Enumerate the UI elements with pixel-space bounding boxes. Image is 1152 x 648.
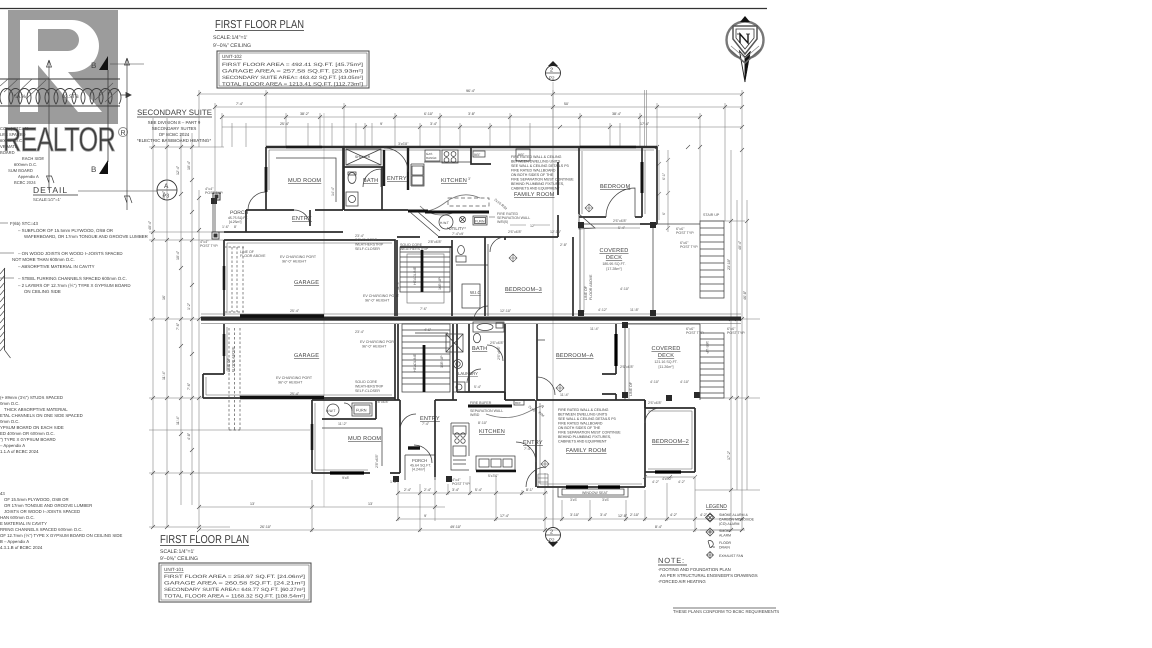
svg-text:12'-8": 12'-8" xyxy=(618,514,628,518)
svg-text:23'-4": 23'-4" xyxy=(355,330,365,334)
bedroomA smoke diamond xyxy=(556,384,564,392)
svg-text:YPSUM BOARD ON EACH SIDE: YPSUM BOARD ON EACH SIDE xyxy=(0,425,64,430)
svg-text:") TYPE X GYPSUM BOARD: ") TYPE X GYPSUM BOARD xyxy=(0,437,56,442)
window bottom mudroom xyxy=(330,471,364,474)
svg-text:GARAGE: GARAGE xyxy=(294,353,319,359)
note block F(6b) xyxy=(10,221,148,294)
svg-text:SCALE:1/2"=1': SCALE:1/2"=1' xyxy=(33,197,61,202)
svg-text:FURN: FURN xyxy=(356,409,367,413)
entry/porch walls xyxy=(224,210,343,232)
svg-text:THESE PLANS CONFORM TO BCB: THESE PLANS CONFORM TO BCBC REQUIREMENTS xyxy=(673,609,779,614)
svg-text:0mm O.C.: 0mm O.C. xyxy=(0,419,20,424)
svg-text:38'-2": 38'-2" xyxy=(300,112,310,116)
garage lower xyxy=(203,324,395,400)
section bubble top xyxy=(546,66,561,81)
unit 102 area box xyxy=(217,51,369,88)
svg-text:KITCHEN: KITCHEN xyxy=(479,429,505,435)
svg-text:\\A.%: \\A.% xyxy=(14,94,27,100)
svg-text:9'–0⅝" CEILING: 9'–0⅝" CEILING xyxy=(213,43,251,49)
utility fixtures xyxy=(439,215,453,229)
svg-text:12'-10": 12'-10" xyxy=(500,309,512,313)
left dim ticks xyxy=(151,145,201,529)
left dimension verticals xyxy=(149,118,312,527)
mud room inner line xyxy=(276,158,336,202)
unit 101 area box xyxy=(159,563,311,602)
svg-text:TOTAL FLOOR AREA = 116: TOTAL FLOOR AREA = 1168.32 SQ.FT. [108.5… xyxy=(164,594,305,599)
tub xyxy=(473,322,504,332)
svg-text:BEHIND PLUMBING FIXTURES,: BEHIND PLUMBING FIXTURES, xyxy=(558,435,611,439)
svg-text:F(6b) STC=43: F(6b) STC=43 xyxy=(10,221,38,226)
svg-text:P2: P2 xyxy=(549,76,555,81)
svg-text:DRAIN: DRAIN xyxy=(719,546,730,550)
svg-text:FAMILY ROOM: FAMILY ROOM xyxy=(514,192,555,198)
svg-text:BEDROOM–3: BEDROOM–3 xyxy=(505,287,542,293)
svg-text:ENTRY: ENTRY xyxy=(523,440,543,446)
svg-text:FIRE SEPARATION MUST CONTINU: FIRE SEPARATION MUST CONTINUE xyxy=(511,178,574,182)
porch xyxy=(213,193,220,200)
smoke alarm diamond xyxy=(585,204,593,212)
svg-text:12'-10": 12'-10" xyxy=(550,230,562,234)
svg-text:ED 400mm OR 600mm O.C.: ED 400mm OR 600mm O.C. xyxy=(0,431,55,436)
svg-text:P2: P2 xyxy=(549,538,555,543)
svg-text:1.1.A of BCBC 2024: 1.1.A of BCBC 2024 xyxy=(0,449,39,454)
svg-text:LINE OF: LINE OF xyxy=(629,381,633,396)
svg-text:FIRST FLOOR PLAN: FIRST FLOOR PLAN xyxy=(215,19,304,31)
garage door lower xyxy=(240,396,324,399)
porch lower xyxy=(405,455,435,480)
pipe curve lower xyxy=(486,406,543,418)
svg-text:WEATHERSTRIP: WEATHERSTRIP xyxy=(355,385,384,389)
svg-text:A: A xyxy=(164,183,169,190)
bedroom door arc xyxy=(606,188,635,217)
svg-text:8'-4": 8'-4" xyxy=(655,525,663,529)
central stairs upper xyxy=(400,247,450,292)
note block f(6b) cut off xyxy=(0,491,122,550)
garage inner dashes xyxy=(224,247,244,312)
svg-text:OF BCBC 2024: OF BCBC 2024 xyxy=(159,132,190,137)
svg-text:W/BD: W/BD xyxy=(470,413,480,417)
note leader ticks xyxy=(0,223,14,278)
svg-text:3'-10": 3'-10" xyxy=(570,513,580,517)
svg-text:EXHAUST FAN: EXHAUST FAN xyxy=(719,554,744,558)
svg-text:PORCH: PORCH xyxy=(412,458,427,463)
svg-text:SECONDARY SUITE AREA= 648.7: SECONDARY SUITE AREA= 648.77 SQ.FT. [60.… xyxy=(164,587,305,592)
svg-text:POST TYP.: POST TYP. xyxy=(680,245,698,249)
svg-text:EV CHARGING PORT: EV CHARGING PORT xyxy=(276,376,313,380)
compass dart xyxy=(740,51,746,82)
svg-text:DECK: DECK xyxy=(658,353,674,359)
svg-text:H.W.T: H.W.T xyxy=(440,221,449,225)
detail band arrow right end xyxy=(121,93,131,98)
central stairs lower xyxy=(402,324,450,392)
svg-text:49'-10": 49'-10" xyxy=(450,525,462,529)
note block w(3b) cut off xyxy=(0,395,83,454)
toilet xyxy=(348,173,356,184)
svg-text:WEATHERSTRIP: WEATHERSTRIP xyxy=(400,247,429,251)
shower/bath upper xyxy=(344,147,408,210)
fire rated note lower xyxy=(558,408,621,444)
svg-text:(CO) ALARM: (CO) ALARM xyxy=(719,522,740,526)
svg-text:03.STB: 03.STB xyxy=(62,94,79,100)
svg-text:9'–0⅝" CEILING: 9'–0⅝" CEILING xyxy=(160,556,198,562)
svg-text:96"-0" HEIGHT: 96"-0" HEIGHT xyxy=(278,381,303,385)
svg-text:[4.24m²]: [4.24m²] xyxy=(412,468,425,472)
svg-text:13': 13' xyxy=(368,502,373,506)
svg-text:SEE DIVISION 8 – PART 9: SEE DIVISION 8 – PART 9 xyxy=(148,120,201,125)
svg-text:ON BOTH SIDES OF THE: ON BOTH SIDES OF THE xyxy=(558,426,601,430)
svg-text:REF: REF xyxy=(518,153,524,157)
svg-text:21'-4": 21'-4" xyxy=(162,190,166,200)
detail dim line mid xyxy=(125,58,133,210)
svg-text:SECONDARY SUITE AREA= 463.4: SECONDARY SUITE AREA= 463.42 SQ.FT. [43.… xyxy=(222,75,363,80)
svg-text:HEADLINE: HEADLINE xyxy=(413,266,417,285)
legend item smoke alarm xyxy=(706,528,714,536)
plans conform strip xyxy=(673,607,776,609)
svg-text:FLOOR ABOVE: FLOOR ABOVE xyxy=(240,254,266,258)
svg-text:SCALE:1/4"=1': SCALE:1/4"=1' xyxy=(213,35,247,41)
svg-text:2'-4": 2'-4" xyxy=(404,488,412,492)
svg-text:H.W.T: H.W.T xyxy=(326,409,335,413)
svg-text:3'-8": 3'-8" xyxy=(468,112,476,116)
svg-text:SCALE:1/4"=1': SCALE:1/4"=1' xyxy=(160,549,194,555)
svg-text:UNIT-101: UNIT-101 xyxy=(164,567,184,572)
svg-text:SELF-CLOSER: SELF-CLOSER xyxy=(355,247,380,251)
fire separation dark band lower xyxy=(468,405,512,408)
svg-text:17'-2": 17'-2" xyxy=(727,450,731,460)
svg-text:4'-12": 4'-12" xyxy=(598,308,608,312)
svg-text:BCBC 2024: BCBC 2024 xyxy=(14,180,36,185)
svg-text:10'-4": 10'-4" xyxy=(176,250,180,260)
svg-text:AS PER STRUCTURAL ENGINEER': AS PER STRUCTURAL ENGINEER'S DRAWINGS xyxy=(660,573,758,578)
svg-text:4.3.1.B of BCBC 2024: 4.3.1.B of BCBC 2024 xyxy=(0,545,43,550)
svg-text:7'-4"x9': 7'-4"x9' xyxy=(452,232,464,236)
svg-text:6'-1": 6'-1" xyxy=(662,172,666,180)
svg-text:13': 13' xyxy=(250,502,255,506)
svg-text:7'-6": 7'-6" xyxy=(187,382,191,390)
svg-text:[11.26m²]: [11.26m²] xyxy=(659,365,674,369)
svg-text:RRING CHANNELS SPACED 600mm: RRING CHANNELS SPACED 600mm O.C. xyxy=(0,527,83,532)
svg-text:HEADLINE: HEADLINE xyxy=(413,353,417,372)
svg-text:3'x5': 3'x5' xyxy=(570,498,577,502)
svg-text:5'-4": 5'-4" xyxy=(474,385,482,389)
svg-text:40'-4": 40'-4" xyxy=(738,240,742,250)
svg-text:50': 50' xyxy=(564,102,569,106)
svg-text:FLOOR ABOVE: FLOOR ABOVE xyxy=(589,274,593,300)
svg-text:5'-4": 5'-4" xyxy=(475,488,483,492)
svg-text:ALARM: ALARM xyxy=(719,534,731,538)
stairs lower right xyxy=(700,333,724,398)
right dimension verticals xyxy=(695,150,760,530)
svg-text:BETWEEN DWELLING UNITS: BETWEEN DWELLING UNITS xyxy=(558,413,608,417)
bedroom right dim col xyxy=(657,150,670,232)
window seat xyxy=(558,487,628,497)
svg-text:2'8"x6'8": 2'8"x6'8" xyxy=(375,454,379,468)
svg-text:ETAL CHANNELS ON ONE SIDE: ETAL CHANNELS ON ONE SIDE SPACED xyxy=(0,413,83,418)
laundry xyxy=(454,360,463,369)
svg-text:OF 12.7mm (⅕") TYPE X GYP: OF 12.7mm (⅕") TYPE X GYPSUM BOARD ON CE… xyxy=(0,533,122,538)
insulation batt loops xyxy=(0,89,121,104)
svg-text:SOLID CORE: SOLID CORE xyxy=(355,380,378,384)
svg-text:185.95 SQ.FT.: 185.95 SQ.FT. xyxy=(602,262,625,266)
svg-text:4'-8": 4'-8" xyxy=(187,432,191,440)
toilet lower xyxy=(473,333,480,343)
svg-text:9': 9' xyxy=(380,122,383,126)
svg-text:UNIT-102: UNIT-102 xyxy=(222,54,242,59)
svg-text:FIRST FLOOR AREA = 258: FIRST FLOOR AREA = 258.97 SQ.FT. [24.06m… xyxy=(164,574,305,579)
bath lower xyxy=(457,324,505,400)
mud room lower xyxy=(312,400,400,473)
WIC xyxy=(456,244,488,316)
svg-text:16R UP: 16R UP xyxy=(705,341,709,354)
svg-text:SUM BOARD: SUM BOARD xyxy=(8,168,33,173)
svg-text:SMOKE ALARM &: SMOKE ALARM & xyxy=(719,513,748,517)
svg-text:GARAGE AREA =: GARAGE AREA = 260.58 SQ.FT. [24.21m²] xyxy=(164,581,305,586)
kitchen lower walls xyxy=(435,392,536,487)
bedroom 3 xyxy=(485,237,573,316)
svg-text:GARAGE: GARAGE xyxy=(294,280,319,286)
party wall heavy band xyxy=(201,317,741,321)
svg-text:MUD ROOM: MUD ROOM xyxy=(348,436,381,442)
gyproc hatch band left xyxy=(0,79,119,102)
svg-text:EACH SIDE: EACH SIDE xyxy=(22,156,44,161)
svg-text:10'-4": 10'-4" xyxy=(187,160,191,170)
svg-text:2'6"x6'8": 2'6"x6'8" xyxy=(648,401,662,405)
family room lower smoke diamond xyxy=(541,460,549,468)
sink xyxy=(425,150,440,161)
covered deck upper xyxy=(580,224,653,316)
svg-text:BATH: BATH xyxy=(363,178,378,184)
svg-text:96"-0" HEIGHT: 96"-0" HEIGHT xyxy=(365,299,390,303)
svg-text:0mm O.C.: 0mm O.C. xyxy=(0,401,20,406)
svg-text:NOTE:: NOTE: xyxy=(658,556,685,565)
svg-text:9': 9' xyxy=(424,514,427,518)
svg-text:4'-10": 4'-10" xyxy=(680,380,690,384)
sheet top border line xyxy=(0,8,767,10)
svg-text:11'-4": 11'-4" xyxy=(162,370,166,380)
svg-text:POST TYP.: POST TYP. xyxy=(676,231,694,235)
svg-text:17'-4": 17'-4" xyxy=(500,514,510,518)
mud room inner line xyxy=(322,428,382,466)
family room smoke diamond xyxy=(509,254,517,262)
bedroom left door wedge xyxy=(579,214,595,229)
svg-text:11'-2": 11'-2" xyxy=(338,422,348,426)
bottom counter xyxy=(476,456,515,470)
svg-text:8'-1": 8'-1" xyxy=(526,488,534,492)
svg-text:NOT MORE THAN 600mm O.C.: NOT MORE THAN 600mm O.C. xyxy=(12,257,75,262)
hall walls around stairs xyxy=(397,240,452,316)
svg-text:7'-6": 7'-6" xyxy=(420,307,428,311)
svg-text:3': 3' xyxy=(468,177,471,181)
svg-text:2'6"x6'8": 2'6"x6'8" xyxy=(613,219,627,223)
svg-text:7'-4": 7'-4" xyxy=(524,447,532,451)
svg-text:11'-4": 11'-4" xyxy=(560,393,570,397)
svg-text:1'-6": 1'-6" xyxy=(222,225,230,229)
mudroom lower window dark xyxy=(311,424,314,450)
svg-text:DETAIL: DETAIL xyxy=(33,185,68,195)
svg-text:HAN 600mm O.C.: HAN 600mm O.C. xyxy=(0,515,35,520)
svg-text:ENTRY: ENTRY xyxy=(387,176,407,182)
wall assembly detail: bottom plate line xyxy=(0,105,120,107)
svg-text:BETWEEN DWELLING UNITS: BETWEEN DWELLING UNITS xyxy=(511,160,561,164)
svg-text:2: 2 xyxy=(550,530,553,536)
svg-text:25'-4": 25'-4" xyxy=(290,309,300,313)
svg-text:BEDROOM–A: BEDROOM–A xyxy=(556,353,594,359)
svg-text:SMOKE: SMOKE xyxy=(719,529,732,533)
svg-text:14'-4": 14'-4" xyxy=(331,186,335,196)
svg-text:2'-10": 2'-10" xyxy=(630,513,640,517)
bedroom closet dark on right wall xyxy=(641,162,644,193)
upper utility separation wall dark xyxy=(408,211,489,212)
svg-text:– ON WOOD JOISTS OR WOOD: – ON WOOD JOISTS OR WOOD I–JOISTS SPACED xyxy=(18,251,123,256)
svg-text:– 2 LAYERS OF 12.7mm (⅕"): – 2 LAYERS OF 12.7mm (⅕") TYPE X GYPSUM … xyxy=(18,283,131,288)
svg-text:FIRST FLOOR PLAN: FIRST FLOOR PLAN xyxy=(160,534,249,546)
ref box kitchen right xyxy=(516,149,530,161)
svg-text:23'-10": 23'-10" xyxy=(727,258,731,270)
svg-text:SOLID CORE: SOLID CORE xyxy=(355,238,378,242)
svg-text:6'-10": 6'-10" xyxy=(424,112,434,116)
garage window dark seg xyxy=(223,266,226,290)
svg-text:7'-6": 7'-6" xyxy=(176,322,180,330)
wall assembly detail: top plate line xyxy=(0,78,120,80)
svg-text:SECONDARY SUITE: SECONDARY SUITE xyxy=(137,108,212,117)
svg-text:FURN: FURN xyxy=(475,220,485,224)
left edge hatched wall strip xyxy=(0,268,11,358)
svg-text:46'-8": 46'-8" xyxy=(743,290,747,300)
bedroom upper xyxy=(579,148,642,217)
svg-text:7'-4": 7'-4" xyxy=(422,422,430,426)
section line B-B vertical xyxy=(107,70,109,162)
svg-text:BEHIND PLUMBING FIXTURES,: BEHIND PLUMBING FIXTURES, xyxy=(511,182,564,186)
svg-text:3'x6'8": 3'x6'8" xyxy=(398,142,409,146)
svg-text:– ABSORPTIVE MATERIAL IN C: – ABSORPTIVE MATERIAL IN CAVITY xyxy=(18,264,95,269)
kitchen counters: left column + bottom xyxy=(451,423,469,470)
window kitchen bottom dark xyxy=(476,470,516,473)
svg-text:COVERED: COVERED xyxy=(599,248,628,254)
svg-text:W.I.C: W.I.C xyxy=(470,290,481,295)
svg-text:8': 8' xyxy=(234,225,237,229)
svg-text:CABINETS AND EQUIPMENT: CABINETS AND EQUIPMENT xyxy=(511,187,561,191)
svg-text:Appendix A: Appendix A xyxy=(18,174,39,179)
svg-text:FIRE RATED WALLBOARD: FIRE RATED WALLBOARD xyxy=(558,422,603,426)
svg-text:OR 17mm TONGUE AND GROOVE: OR 17mm TONGUE AND GROOVE LUMBER xyxy=(4,503,92,508)
svg-text:LES SPACED: LES SPACED xyxy=(0,132,25,137)
svg-text:4'-10": 4'-10" xyxy=(650,380,660,384)
svg-text:CABINETS AND EQUIPMENT: CABINETS AND EQUIPMENT xyxy=(558,440,608,444)
svg-text:1'-6": 1'-6" xyxy=(390,480,398,484)
left rotated dim texts xyxy=(148,160,191,440)
svg-text:2: 2 xyxy=(550,68,553,74)
shower lower xyxy=(446,334,463,352)
svg-text:4'-2": 4'-2" xyxy=(678,480,686,484)
svg-text:FLOOR ABOVE: FLOOR ABOVE xyxy=(232,346,236,372)
svg-text:600mm O.C.: 600mm O.C. xyxy=(14,162,37,167)
svg-text:– SUBFLOOR OF 15.5mm PLYWO: – SUBFLOOR OF 15.5mm PLYWOOD, OSB OR xyxy=(18,228,113,233)
svg-text:[17.28m²]: [17.28m²] xyxy=(606,267,621,271)
mud room walls xyxy=(266,147,343,210)
svg-text:2'8"x6'8": 2'8"x6'8" xyxy=(428,240,442,244)
svg-text:LEGEND: LEGEND xyxy=(706,504,727,510)
left margin assembly note fragments (behind watermark word) xyxy=(0,126,44,185)
svg-text:COVERED: COVERED xyxy=(651,346,680,352)
svg-text:5'x3'6": 5'x3'6" xyxy=(488,474,499,478)
svg-text:DECK: DECK xyxy=(606,255,622,261)
svg-text:4'-10": 4'-10" xyxy=(620,287,630,291)
svg-text:SECONDARY SUITES: SECONDARY SUITES xyxy=(152,126,197,131)
svg-text:ON CEILING SIDE: ON CEILING SIDE xyxy=(24,289,61,294)
range xyxy=(442,150,458,163)
svg-text:BEDROOM–2: BEDROOM–2 xyxy=(652,439,689,445)
svg-text:FLOOR: FLOOR xyxy=(719,541,732,545)
sink vanity xyxy=(346,192,358,206)
4x4 post label xyxy=(212,232,219,239)
legend item exhaust fan xyxy=(707,552,714,559)
svg-text:FIRE RATED WALL & CEILING: FIRE RATED WALL & CEILING xyxy=(558,408,609,412)
svg-text:WEATHERSTRIP: WEATHERSTRIP xyxy=(355,243,384,247)
kitchen upper counters xyxy=(411,162,471,186)
svg-text:16R UP: 16R UP xyxy=(440,355,444,368)
detail dim line left xyxy=(47,60,55,190)
svg-text:3'x5': 3'x5' xyxy=(602,498,609,502)
section bubble bottom xyxy=(546,528,561,543)
svg-text:THICK ABSORPTIVE MATERIAL: THICK ABSORPTIVE MATERIAL xyxy=(4,407,68,412)
svg-text:FIRE SEPARATION MUST CONTINU: FIRE SEPARATION MUST CONTINUE xyxy=(558,431,621,435)
svg-text:STAIR UP: STAIR UP xyxy=(703,213,720,217)
svg-text:POST TYP.: POST TYP. xyxy=(686,331,704,335)
svg-text:2'6"x6'8": 2'6"x6'8" xyxy=(490,341,504,345)
svg-text:40'-4": 40'-4" xyxy=(148,220,152,230)
detail bubble A/P3 xyxy=(157,180,177,200)
right exterior wall + wing xyxy=(640,147,657,224)
svg-text:96"-0" HEIGHT: 96"-0" HEIGHT xyxy=(282,260,307,264)
svg-text:POST TYP.: POST TYP. xyxy=(452,482,470,486)
svg-text:SHOWER: SHOWER xyxy=(355,155,371,159)
svg-text:POST TYP.: POST TYP. xyxy=(205,191,223,195)
top extension verticals xyxy=(199,90,742,221)
svg-text:121.16 SQ.FT.: 121.16 SQ.FT. xyxy=(654,360,677,364)
entry door arc xyxy=(248,192,266,210)
REALTOR logo gray box xyxy=(8,10,118,124)
svg-text:GARAGE AREA =: GARAGE AREA = 257.58 SQ.FT. [23.93m²] xyxy=(222,69,363,74)
svg-text:FAMILY ROOM: FAMILY ROOM xyxy=(566,448,607,454)
svg-text:25'-4": 25'-4" xyxy=(290,392,300,396)
svg-text:W/B(5): W/B(5) xyxy=(497,220,508,224)
garage door threshold xyxy=(240,314,324,318)
bedroom A closet dark xyxy=(614,334,617,366)
svg-text:LINE OF: LINE OF xyxy=(227,357,231,372)
top dim texts xyxy=(236,89,650,126)
mud room window dark seg xyxy=(265,167,268,192)
svg-text:CO(...) STC=43: CO(...) STC=43 xyxy=(0,126,29,131)
svg-text:[4.25m²]: [4.25m²] xyxy=(229,220,241,224)
bedroom 2 xyxy=(645,400,695,487)
long extension line x324 xyxy=(323,113,325,507)
svg-text:SEE WALL & CEILING DETAILS P3: SEE WALL & CEILING DETAILS P3 xyxy=(558,417,616,421)
svg-text:4'-2": 4'-2" xyxy=(652,480,660,484)
north arrow compass xyxy=(727,22,764,59)
svg-text:3'-4": 3'-4" xyxy=(430,122,438,126)
garage upper walls xyxy=(224,240,395,316)
svg-text:RANGE: RANGE xyxy=(426,156,437,160)
svg-text:26'-10": 26'-10" xyxy=(260,525,272,529)
bedroom A xyxy=(537,324,645,400)
svg-text:2'8"x6'8": 2'8"x6'8" xyxy=(375,400,389,404)
exterior top wall xyxy=(266,146,657,148)
svg-text:11'-4": 11'-4" xyxy=(176,415,180,425)
svg-text:ENTRY: ENTRY xyxy=(292,216,312,222)
svg-text:2'6"x6'8": 2'6"x6'8" xyxy=(508,230,522,234)
svg-text:9'x8': 9'x8' xyxy=(342,476,349,480)
svg-text:REF: REF xyxy=(474,153,480,157)
